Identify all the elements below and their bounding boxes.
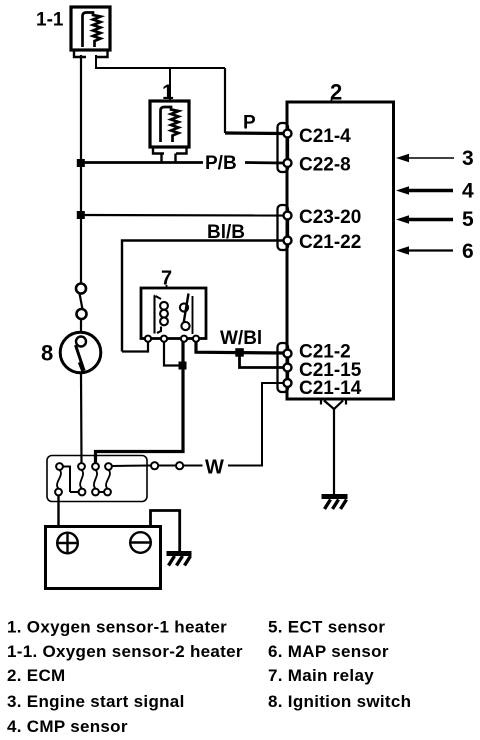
ignition switch 8: [60, 332, 101, 373]
svg-text:Bl/B: Bl/B: [207, 222, 245, 243]
svg-text:C22-8: C22-8: [299, 155, 351, 176]
svg-text:4: 4: [462, 180, 474, 203]
main left wire from 1-1 left terminal down: [80, 55, 82, 284]
svg-text:3. Engine start signal: 3. Engine start signal: [7, 692, 185, 711]
ECM bottom connector: [321, 399, 346, 409]
svg-text:1. Oxygen sensor-1 heater: 1. Oxygen sensor-1 heater: [7, 618, 227, 637]
wire vertical drop to P wire: [224, 68, 226, 133]
svg-text:8. Ignition switch: 8. Ignition switch: [268, 692, 411, 711]
connector shell pins C21-4 C22-8: [278, 123, 289, 172]
oxygen sensor-1 heater 1 box: [150, 101, 189, 154]
svg-text:C21-22: C21-22: [299, 232, 361, 253]
fuse terminals top row: [56, 463, 112, 470]
inline connector circles on W wire: [151, 462, 183, 469]
arrow 3 engine start signal: [396, 147, 474, 170]
wire relay terminal A to Bl/B vertical: [122, 342, 148, 352]
svg-text:C21-4: C21-4: [299, 126, 351, 147]
contact blade between circles: [80, 293, 83, 309]
svg-text:P: P: [243, 113, 256, 134]
svg-text:1-1: 1-1: [36, 10, 64, 31]
svg-text:2. ECM: 2. ECM: [7, 666, 65, 685]
fusible links S-curves: [57, 470, 110, 489]
wire W from fuse T4 to ECM pin C21-14: [113, 383, 284, 466]
oxygen sensor-2 heater 1-1 box: [71, 7, 110, 57]
svg-text:C21-14: C21-14: [299, 378, 362, 399]
relay contact: [180, 294, 193, 335]
wire P/B from junction to ECM pin C22-8: [81, 161, 283, 164]
ECM pin circles: [284, 130, 292, 388]
wire relay terminal C down to fuse block: [96, 342, 184, 463]
svg-text:1: 1: [162, 81, 174, 104]
ECM box 2: [287, 102, 394, 399]
legend right column: [268, 618, 411, 712]
battery box: [46, 527, 161, 589]
branch wire to ECM pin C21-15: [240, 352, 284, 368]
relay terminals: [145, 336, 199, 342]
wire ignition switch to fuse T2: [80, 373, 83, 463]
main relay 7 box: [141, 288, 206, 339]
arrow 4 CMP sensor: [396, 180, 474, 203]
svg-text:3: 3: [462, 147, 474, 170]
jumper T1 to B2: [64, 467, 79, 493]
svg-text:5. ECT sensor: 5. ECT sensor: [268, 618, 385, 637]
heater element coil inside 1: [161, 107, 179, 142]
chassis ground battery: [167, 554, 192, 566]
jumper B3 to B4: [100, 491, 104, 493]
battery plus terminal: [57, 533, 78, 554]
wire to ECM pin C23-20: [81, 214, 283, 217]
connector shell pins C23-20 C21-22: [278, 205, 289, 250]
chassis ground ECM: [322, 497, 348, 510]
junction dot at P/B branch: [77, 159, 85, 167]
relay coil: [155, 296, 168, 334]
arrow 6 MAP sensor: [396, 240, 474, 263]
wire W/Bl relay terminal D to ECM pin C21-2: [196, 342, 283, 353]
junction dot relay wires: [179, 362, 187, 370]
wire from top of 1 up to horizontal run: [169, 68, 171, 101]
junction dot at C23-20 branch: [77, 211, 85, 219]
fuse block outline: [47, 456, 147, 502]
wire relay terminal B to junction: [164, 342, 183, 366]
wire B1 to battery plus: [57, 496, 59, 527]
svg-text:6. MAP sensor: 6. MAP sensor: [268, 642, 389, 661]
wire P to ECM pin C21-4: [225, 131, 283, 135]
svg-text:8: 8: [41, 341, 53, 366]
svg-text:6: 6: [462, 240, 474, 263]
component 1 terminals dropping to P/B wire: [162, 154, 176, 163]
wire battery to chassis ground: [151, 511, 180, 552]
contact circles above ignition switch: [76, 284, 87, 320]
svg-text:W: W: [205, 457, 224, 479]
connector shell pins C21-2 C21-15 C21-14: [278, 343, 289, 392]
svg-text:7. Main relay: 7. Main relay: [268, 666, 374, 685]
arrow 5 ECT sensor: [396, 208, 474, 231]
svg-text:W/Bl: W/Bl: [220, 328, 262, 349]
svg-text:1-1. Oxygen sensor-2 heater: 1-1. Oxygen sensor-2 heater: [7, 642, 243, 661]
wire from 1-1 right terminal to corner: [96, 55, 225, 68]
svg-text:4. CMP sensor: 4. CMP sensor: [7, 717, 128, 736]
svg-text:5: 5: [462, 208, 474, 231]
wire contact to ignition switch: [80, 319, 82, 332]
junction dot on W/Bl wire: [235, 348, 244, 357]
heater element coil inside 1-1: [83, 13, 101, 48]
wire ECM to ground: [333, 409, 335, 495]
battery minus terminal: [130, 532, 151, 553]
fuse terminals bottom row: [55, 489, 111, 496]
svg-text:C23-20: C23-20: [299, 207, 361, 228]
legend left column: [7, 618, 243, 737]
svg-text:P/B: P/B: [205, 153, 237, 174]
wire Bl/B corner to ECM pin C21-22: [122, 241, 283, 352]
